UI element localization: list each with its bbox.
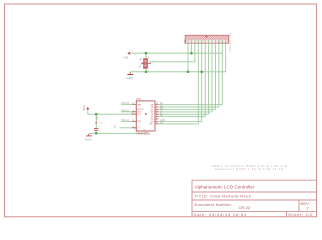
svg-text:8: 8 (144, 130, 145, 132)
svg-text:IC1: IC1 (137, 97, 142, 101)
svg-text:VCC: VCC (83, 105, 86, 110)
svg-text:LCD CONN 2X6: LCD CONN 2X6 (228, 33, 232, 52)
svg-text:1: 1 (148, 70, 149, 72)
svg-text:16: 16 (131, 113, 133, 115)
svg-text:74HC595N: 74HC595N (136, 131, 150, 135)
svg-text:DS4 11: DS4 11 (121, 110, 129, 112)
svg-text:DS4 13: DS4 13 (121, 103, 129, 105)
svg-text:DS4 14: DS4 14 (121, 120, 129, 122)
svg-text:14: 14 (132, 103, 134, 105)
svg-text:SER: SER (137, 105, 142, 107)
svg-text:Date: 03/04/14 16:54: Date: 03/04/14 16:54 (194, 212, 247, 217)
svg-text:RS: RS (160, 115, 164, 117)
svg-text:13: 13 (132, 126, 134, 128)
svg-text:GND: GND (126, 76, 133, 80)
svg-text:VCC: VCC (137, 114, 142, 116)
svg-text:CR-02: CR-02 (239, 205, 251, 210)
svg-text:Connector P305 7-12 to LCD 11-: Connector P305 7-12 to LCD 11-16 (215, 167, 283, 171)
svg-text:Alphanumeric LCD Controller: Alphanumeric LCD Controller (195, 185, 255, 190)
svg-text:12: 12 (132, 120, 134, 122)
svg-text:2: 2 (149, 62, 150, 64)
svg-text:9: 9 (156, 122, 157, 124)
svg-text:3: 3 (148, 58, 149, 60)
svg-text:VEE: VEE (124, 56, 129, 59)
svg-text:X2: X2 (183, 39, 187, 43)
svg-text:Sheet: 2/2: Sheet: 2/2 (288, 212, 313, 217)
svg-text:Document Number:: Document Number: (195, 202, 233, 207)
svg-text:GND: GND (85, 138, 92, 142)
svg-text:TITLE: Click-Remote-Rev2: TITLE: Click-Remote-Rev2 (195, 194, 252, 199)
svg-text:RS: RS (160, 122, 164, 124)
